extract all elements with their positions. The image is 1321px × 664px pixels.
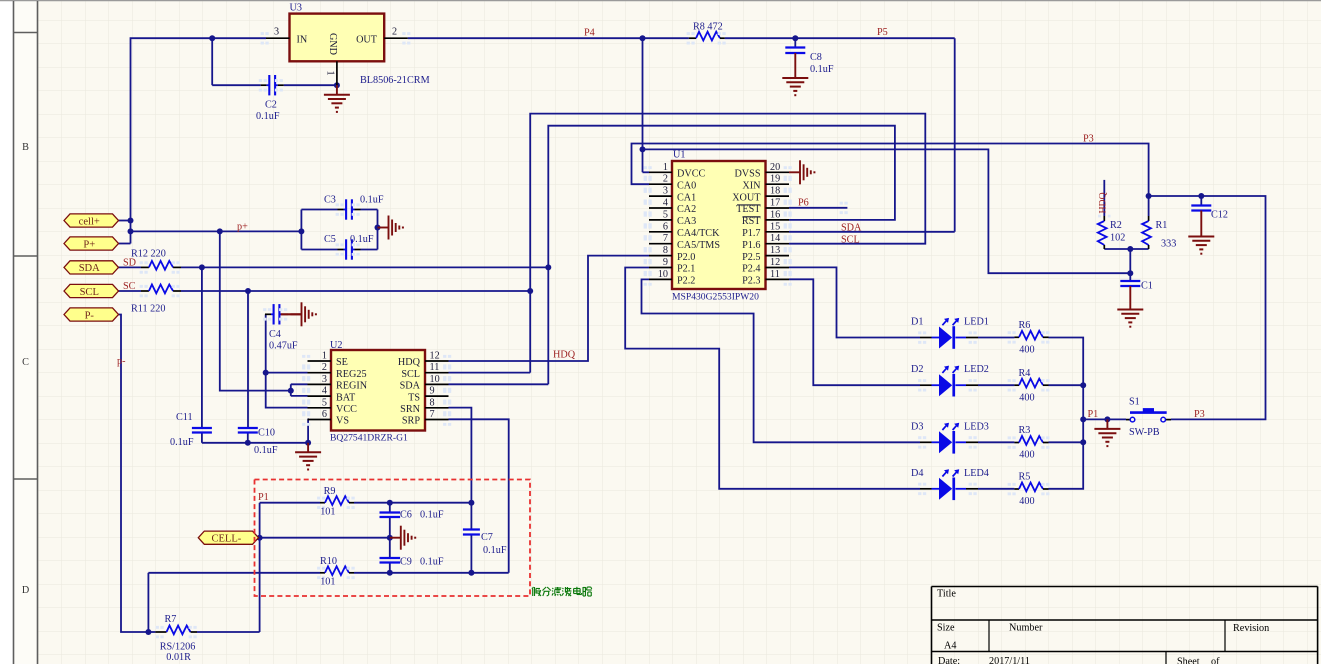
svg-text:D1: D1	[911, 317, 923, 328]
wire R7 right leg	[259, 503, 261, 632]
wire C3 C5 loop	[301, 210, 377, 250]
LED D3	[911, 421, 989, 453]
svg-text:A4: A4	[944, 641, 956, 652]
ground U3 GND earth	[324, 85, 350, 112]
junction C12 tap	[1198, 193, 1204, 199]
ground U2 VS earth	[295, 443, 321, 470]
svg-text:15: 15	[770, 221, 780, 232]
wire SC port stub	[119, 290, 142, 292]
svg-text:P1: P1	[258, 492, 269, 503]
svg-text:R7: R7	[165, 614, 177, 625]
svg-text:0.01R: 0.01R	[166, 652, 191, 663]
junction p+/BAT branch	[217, 228, 223, 234]
resistor R2 102 vertical	[1098, 180, 1125, 249]
resistor R12 220	[131, 249, 181, 274]
svg-text:14: 14	[770, 233, 780, 244]
capacitor C8 0.1uF	[785, 38, 834, 75]
junction SD/vertical	[545, 264, 551, 270]
svg-text:CA1: CA1	[677, 192, 696, 203]
svg-text:11: 11	[430, 362, 440, 373]
svg-text:SRN: SRN	[400, 404, 420, 415]
svg-text:0.1uF: 0.1uF	[170, 437, 194, 448]
junction SC/C10	[245, 288, 251, 294]
wire p+ to U2 REGIN BAT	[220, 231, 308, 396]
svg-text:C12: C12	[1211, 210, 1228, 221]
svg-text:VS: VS	[336, 416, 349, 427]
svg-text:20: 20	[770, 162, 780, 173]
svg-text:SCL: SCL	[841, 234, 860, 245]
svg-text:9: 9	[663, 257, 668, 268]
wire U1 TEST P6 stub	[789, 202, 848, 214]
svg-text:400: 400	[1019, 450, 1034, 461]
svg-text:of: of	[1211, 657, 1220, 664]
wire net VS ground rail	[202, 419, 308, 443]
resistor R5 400	[1008, 472, 1050, 508]
svg-text:R11 220: R11 220	[131, 304, 165, 315]
svg-text:U3: U3	[290, 3, 302, 14]
resistor R10 101	[317, 556, 355, 588]
svg-text:C3: C3	[324, 195, 336, 206]
svg-text:3: 3	[663, 186, 668, 197]
svg-text:C: C	[22, 357, 29, 368]
svg-text:C8: C8	[810, 52, 822, 63]
svg-text:R4: R4	[1019, 368, 1031, 379]
svg-text:LED1: LED1	[964, 317, 989, 328]
ground CELL- bar	[390, 526, 416, 550]
svg-text:B: B	[22, 142, 29, 153]
svg-text:3: 3	[274, 27, 279, 38]
wire C6 leg	[389, 503, 391, 538]
svg-text:P1.6: P1.6	[742, 240, 760, 251]
svg-text:p-: p-	[117, 356, 126, 367]
svg-text:1: 1	[325, 70, 336, 75]
junction VS ground	[305, 440, 311, 446]
junction P4/C2 tap	[209, 35, 215, 41]
port P-	[64, 308, 119, 321]
svg-text:12: 12	[770, 257, 780, 268]
svg-text:TEST: TEST	[736, 204, 761, 215]
svg-text:19: 19	[770, 174, 780, 185]
svg-text:400: 400	[1019, 393, 1034, 404]
svg-text:BL8506-21CRM: BL8506-21CRM	[360, 75, 430, 86]
svg-text:1: 1	[322, 351, 327, 362]
svg-text:8: 8	[663, 245, 668, 256]
resistor R7 RS/1206 0.01R	[155, 614, 197, 663]
svg-text:0.1uF: 0.1uF	[483, 545, 507, 556]
svg-text:P3: P3	[1194, 409, 1205, 420]
svg-text:17: 17	[770, 198, 780, 209]
svg-text:R5: R5	[1019, 472, 1031, 483]
junction CELL-/R7 leg	[257, 535, 263, 541]
svg-text:R6: R6	[1019, 320, 1031, 331]
svg-text:DVCC: DVCC	[677, 169, 706, 180]
port SDA	[64, 261, 119, 274]
resistor R1 333 vertical	[1142, 196, 1176, 250]
text differential filter label	[532, 587, 592, 596]
ground C1 earth	[1117, 300, 1143, 327]
svg-text:BAT: BAT	[336, 392, 356, 403]
svg-text:0.1uF: 0.1uF	[420, 557, 444, 568]
svg-text:SE: SE	[336, 357, 348, 368]
wire net SRN to filter	[449, 408, 472, 573]
wire net P2.4 to D1 row	[789, 267, 1014, 337]
junction R9/C6	[387, 500, 393, 506]
svg-text:SRP: SRP	[402, 416, 420, 427]
wire net P2.3 to D2 row	[789, 279, 1014, 385]
wire P3 node rail to switch	[1149, 196, 1266, 419]
wire net P3 CA0 rail	[632, 144, 1149, 197]
junction p+ start	[128, 228, 134, 234]
wire net P- vertical	[119, 315, 149, 633]
svg-text:MSP430G2553IPW20: MSP430G2553IPW20	[672, 292, 759, 303]
capacitor C2 0.1uF	[256, 75, 284, 122]
svg-text:CA4/TCK: CA4/TCK	[677, 228, 720, 239]
svg-text:C6: C6	[400, 510, 412, 521]
svg-text:CA3: CA3	[677, 216, 696, 227]
svg-text:C11: C11	[176, 412, 193, 423]
svg-text:4: 4	[322, 386, 327, 397]
svg-text:p+: p+	[237, 222, 248, 233]
resistor R8 472	[687, 22, 726, 45]
svg-text:SD: SD	[123, 258, 136, 269]
svg-text:D: D	[22, 585, 29, 596]
wire net P2.1 to D4 row	[625, 268, 1014, 489]
wire net HDQ U2 to U1 P2.0	[449, 256, 650, 361]
svg-text:P2.2: P2.2	[677, 276, 695, 287]
svg-text:SDA: SDA	[79, 263, 100, 274]
switch S1 SW-PB	[1126, 396, 1171, 438]
svg-text:DVSS: DVSS	[734, 169, 760, 180]
svg-text:HDQ: HDQ	[398, 357, 421, 368]
svg-text:C4: C4	[269, 329, 281, 340]
svg-text:2017/1/11: 2017/1/11	[989, 656, 1030, 664]
junction cell+ tap	[128, 218, 134, 224]
svg-text:C7: C7	[481, 532, 493, 543]
port cell+	[64, 214, 119, 227]
svg-text:P1: P1	[1088, 409, 1099, 420]
svg-text:0.47uF: 0.47uF	[269, 341, 298, 352]
svg-text:REGIN: REGIN	[336, 381, 368, 392]
svg-text:6: 6	[322, 409, 327, 420]
junction C10 bottom	[245, 440, 251, 446]
svg-text:16: 16	[770, 209, 780, 220]
junction C1 node	[1127, 270, 1133, 276]
wire R7 row	[148, 573, 259, 632]
wire net DVCC vertical	[643, 38, 650, 172]
wire net p+ horizontal	[119, 221, 302, 244]
svg-text:HDQ: HDQ	[1098, 192, 1109, 213]
svg-text:P6: P6	[798, 198, 809, 209]
svg-text:P2.1: P2.1	[677, 264, 695, 275]
resistor R11 220	[131, 285, 181, 315]
IC U2 fuel gauge BQ27541DRZR-G1	[302, 340, 451, 444]
capacitor C1	[1120, 273, 1153, 300]
junction P4/C8 tap	[792, 35, 798, 41]
wire SD vertical corner to U2 SDA	[449, 383, 549, 385]
svg-text:CA2: CA2	[677, 204, 696, 215]
capacitor C10 0.1uF	[238, 428, 278, 457]
svg-text:P4: P4	[584, 28, 595, 39]
ground C12 earth	[1188, 227, 1214, 254]
capacitor C12	[1191, 196, 1228, 227]
svg-text:0.1uF: 0.1uF	[256, 111, 280, 122]
ground U1 DVSS bar	[789, 160, 815, 184]
svg-text:11: 11	[770, 269, 780, 280]
svg-text:P3: P3	[1083, 134, 1094, 145]
wire net SD link to U1 RST	[548, 126, 895, 385]
svg-text:Revision: Revision	[1233, 623, 1269, 634]
svg-text:CA0: CA0	[677, 180, 696, 191]
svg-text:REG25: REG25	[336, 369, 367, 380]
svg-text:Number: Number	[1009, 623, 1043, 634]
svg-text:R3: R3	[1019, 425, 1031, 436]
junction R10/C7	[468, 570, 474, 576]
svg-text:5: 5	[322, 397, 327, 408]
wire LED resistor commons	[1049, 338, 1127, 489]
svg-text:102: 102	[1110, 233, 1125, 244]
ground C8 earth	[782, 69, 808, 96]
junction LED common P1	[1080, 416, 1086, 422]
wire SC horizontal	[181, 290, 530, 292]
LED D4	[911, 468, 989, 500]
svg-text:SCL: SCL	[80, 287, 99, 298]
junction REG25 tap	[263, 370, 269, 376]
svg-text:Size: Size	[937, 623, 955, 634]
svg-text:RST: RST	[742, 216, 761, 227]
svg-text:S1: S1	[1129, 396, 1140, 407]
svg-text:GND: GND	[327, 33, 338, 55]
svg-text:8: 8	[430, 397, 435, 408]
wire net SC link to U1 P1.6	[530, 114, 925, 373]
wire net P2.2 to D3 row	[642, 279, 1015, 442]
capacitor C4 0.47uF	[263, 304, 301, 351]
svg-text:P2.0: P2.0	[677, 252, 695, 263]
svg-text:3: 3	[322, 374, 327, 385]
capacitor C5 0.1uF	[324, 234, 374, 260]
svg-text:P5: P5	[877, 27, 888, 38]
svg-text:4: 4	[663, 198, 668, 209]
svg-text:P+: P+	[83, 239, 95, 250]
junction R7 left	[145, 629, 151, 635]
svg-text:0.1uF: 0.1uF	[360, 195, 384, 206]
svg-text:5: 5	[663, 209, 668, 220]
ground C3C5 bar	[378, 216, 404, 240]
svg-text:OUT: OUT	[356, 35, 378, 46]
svg-text:C9: C9	[400, 557, 412, 568]
svg-text:LED3: LED3	[964, 421, 989, 432]
svg-text:0.1uF: 0.1uF	[350, 234, 374, 245]
svg-text:XIN: XIN	[742, 180, 761, 191]
wire SC corner to U2 SCL	[449, 372, 531, 374]
port SCL	[64, 284, 119, 297]
svg-text:U1: U1	[673, 150, 685, 161]
wire net REG25 C4	[266, 314, 308, 407]
junction LED common D2	[1080, 382, 1086, 388]
junction P3/R1 top	[1146, 193, 1152, 199]
junction CELL-/C6C9	[387, 535, 393, 541]
wire CELL- row	[259, 537, 390, 539]
svg-text:0.1uF: 0.1uF	[810, 64, 834, 75]
svg-text:1: 1	[663, 162, 668, 173]
svg-text:101: 101	[320, 507, 335, 518]
svg-text:7: 7	[663, 233, 668, 244]
junction R10/C9	[387, 570, 393, 576]
svg-text:D3: D3	[911, 421, 923, 432]
junction P1 ground tap	[1104, 416, 1110, 422]
resistor R4 400	[1008, 368, 1050, 404]
capacitor C11 0.1uF	[170, 412, 212, 448]
svg-text:U2: U2	[330, 340, 342, 351]
svg-text:Date:: Date:	[938, 656, 960, 664]
resistor R3 400	[1008, 425, 1050, 461]
junction DVCC branch	[640, 146, 646, 152]
svg-text:R2: R2	[1110, 220, 1122, 231]
svg-text:XOUT: XOUT	[732, 192, 761, 203]
svg-text:101: 101	[320, 577, 335, 588]
svg-text:7: 7	[430, 409, 435, 420]
wire C10 leg	[247, 291, 249, 443]
svg-text:VCC: VCC	[336, 404, 357, 415]
svg-text:6: 6	[663, 221, 668, 232]
svg-text:SC: SC	[123, 281, 136, 292]
svg-text:10: 10	[430, 374, 440, 385]
svg-text:HDQ: HDQ	[553, 350, 576, 361]
junction C3C5 ground tap	[375, 225, 381, 231]
svg-text:P2.5: P2.5	[742, 252, 760, 263]
svg-text:SCL: SCL	[401, 369, 420, 380]
svg-text:Title: Title	[937, 589, 956, 600]
junction SC/vertical	[527, 288, 533, 294]
svg-text:IN: IN	[297, 35, 308, 46]
svg-text:P2.4: P2.4	[742, 264, 760, 275]
port P+	[64, 237, 119, 250]
svg-text:2: 2	[392, 27, 397, 38]
wire C11 leg	[201, 267, 203, 442]
svg-text:10: 10	[658, 269, 668, 280]
svg-text:2: 2	[322, 362, 327, 373]
svg-text:12: 12	[430, 351, 440, 362]
wire C9 leg	[389, 538, 391, 573]
svg-text:0.1uF: 0.1uF	[254, 445, 278, 456]
LED D1	[911, 317, 989, 349]
junction REGIN/BAT fork	[288, 388, 294, 394]
port CELL-	[198, 531, 258, 544]
svg-text:LED2: LED2	[964, 364, 989, 375]
junction SD/C11	[199, 264, 205, 270]
svg-text:P-: P-	[85, 310, 95, 321]
svg-text:13: 13	[770, 245, 780, 256]
capacitor C9 0.1uF	[380, 557, 444, 568]
svg-text:C5: C5	[324, 234, 336, 245]
svg-text:9: 9	[430, 386, 435, 397]
svg-text:cell+: cell+	[79, 216, 100, 227]
svg-text:CA5/TMS: CA5/TMS	[677, 240, 720, 251]
svg-text:TS: TS	[408, 392, 420, 403]
svg-text:R9: R9	[324, 486, 336, 497]
svg-text:P2.3: P2.3	[742, 276, 760, 287]
dashed differential filter box	[255, 480, 531, 597]
svg-text:R8 472: R8 472	[693, 22, 723, 33]
svg-text:0.1uF: 0.1uF	[420, 510, 444, 521]
ground P1 switch earth	[1094, 419, 1120, 446]
svg-text:Sheet: Sheet	[1177, 657, 1200, 664]
IC U3 regulator BL8506-21CRM	[261, 3, 430, 87]
wire SD horizontal	[181, 266, 548, 268]
title block	[932, 587, 1318, 664]
svg-text:18: 18	[770, 186, 780, 197]
junction C2/U3 GND	[334, 82, 340, 88]
junction LED common D3	[1080, 439, 1086, 445]
junction R9/C7/SRN	[468, 500, 474, 506]
svg-text:R10: R10	[320, 556, 337, 567]
wire R10 row	[148, 572, 508, 574]
svg-text:D2: D2	[911, 364, 923, 375]
svg-text:C2: C2	[265, 100, 277, 111]
IC U1 microcontroller MSP430G2553IPW20	[644, 150, 792, 303]
wire net SRP to filter	[449, 419, 509, 573]
wire SD port stub	[119, 266, 142, 268]
svg-text:C1: C1	[1141, 281, 1153, 292]
wire R9 row	[260, 502, 472, 504]
svg-text:SDA: SDA	[841, 223, 862, 234]
LED D2	[911, 364, 989, 396]
svg-text:333: 333	[1161, 239, 1176, 250]
svg-text:LED4: LED4	[964, 468, 989, 479]
svg-text:BQ27541DRZR-G1: BQ27541DRZR-G1	[330, 433, 408, 444]
ground C4 bar	[291, 302, 317, 326]
capacitor C3 0.1uF	[324, 195, 384, 220]
svg-text:C10: C10	[258, 428, 275, 439]
wire DVCC to C1 node	[643, 149, 1131, 273]
svg-text:400: 400	[1019, 496, 1034, 507]
svg-text:400: 400	[1019, 345, 1034, 356]
resistor R9 101	[317, 486, 355, 518]
capacitor C7 0.1uF	[463, 530, 507, 557]
capacitor C6 0.1uF	[380, 510, 444, 521]
wire R1 R2 bottom link	[1104, 249, 1148, 273]
junction p+/C3C5	[298, 228, 304, 234]
wire net P4 top rail	[131, 38, 955, 243]
svg-text:CELL-: CELL-	[211, 534, 241, 545]
junction P4/DVCC tap	[640, 35, 646, 41]
svg-text:SDA: SDA	[400, 381, 421, 392]
svg-text:R1: R1	[1156, 220, 1168, 231]
junction R1R2 bottom	[1127, 246, 1133, 252]
resistor R6 400	[1008, 320, 1050, 356]
svg-text:R12 220: R12 220	[131, 249, 166, 260]
svg-text:2: 2	[663, 174, 668, 185]
svg-text:D4: D4	[911, 468, 923, 479]
svg-text:P1.7: P1.7	[742, 228, 760, 239]
svg-text:SW-PB: SW-PB	[1129, 427, 1160, 438]
